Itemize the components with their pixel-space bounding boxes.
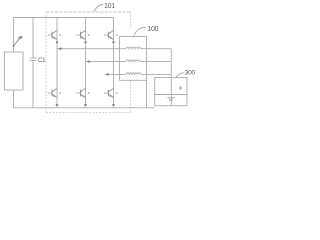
leg 1 upper collector wire	[56, 18, 58, 40]
svg-text:C1: C1	[38, 58, 46, 64]
phase wire W (row 3) with arrowhead	[105, 73, 126, 75]
leg 3 mid wire (phase node down to lower collector)	[113, 45, 115, 98]
top bus (positive rail)	[14, 17, 114, 19]
leg 2 mid wire (phase node down to lower collector)	[85, 45, 87, 98]
phase wire U (row 1) with arrowhead	[57, 48, 126, 50]
leg 1 upper emitter wire + arrow	[56, 40, 58, 42]
dashed box 101 (inverter boundary)	[46, 12, 131, 113]
leg 2 lower emitter wire + arrow to negative bus	[85, 98, 87, 105]
transistor Q3 (upper leg 2)	[76, 30, 90, 39]
neutral wire down to box 300	[170, 49, 172, 78]
leg 3 lower emitter wire + arrow to negative bus	[113, 98, 115, 105]
transistor Q2 (lower leg 1)	[48, 88, 62, 97]
divider in box 300	[155, 94, 187, 96]
transistor Q4 (lower leg 2)	[76, 88, 90, 97]
capacitor C1 plates	[30, 58, 37, 61]
wire row 1 to neutral bus	[141, 48, 171, 50]
wire row 2 to neutral bus	[141, 61, 171, 63]
leg 2 upper emitter wire + arrow	[85, 40, 87, 42]
leg 1 mid wire (phase node down to lower collector)	[56, 45, 58, 98]
svg-text:100: 100	[147, 26, 158, 33]
wire: vertical from source box top to top bus	[13, 18, 15, 53]
motor winding coil row 3	[126, 73, 141, 75]
small plus mark in box 300	[179, 86, 183, 90]
leg 3 upper emitter wire + arrow	[113, 40, 115, 42]
motor winding coil row 2	[126, 60, 141, 62]
battery source box (left)	[5, 52, 24, 90]
phase wire V (row 2) with arrowhead	[86, 61, 126, 63]
switch contact dot	[12, 45, 14, 47]
wire: motor box lower-right corner down to negative bus	[146, 80, 148, 108]
transistor Q6 (lower leg 3)	[104, 88, 118, 97]
wire: source box bottom to bottom bus	[13, 90, 15, 108]
leg 2 upper collector wire	[85, 18, 87, 40]
leader line to label 100	[134, 27, 146, 36]
leader line to label 300	[176, 73, 184, 78]
switch blade tip blob	[18, 35, 23, 39]
transistor Q1 (upper leg 1)	[48, 30, 62, 39]
wire through box 300	[170, 78, 172, 106]
leader line to label 101	[94, 4, 103, 11]
switch blade	[14, 38, 20, 45]
wire row 3 to neutral bus	[141, 73, 171, 75]
battery plates in box 300	[167, 98, 175, 100]
leg 1 lower emitter wire + arrow to negative bus	[56, 98, 58, 105]
motor winding coil row 1	[126, 47, 141, 49]
bottom bus (negative rail)	[14, 107, 155, 109]
svg-text:300: 300	[185, 70, 196, 77]
capacitor C1 top lead	[32, 18, 34, 58]
transistor Q5 (upper leg 3)	[104, 30, 118, 39]
box 300	[155, 78, 187, 106]
motor box 100	[120, 37, 147, 81]
leg 3 upper collector wire	[113, 18, 115, 40]
capacitor C1 bottom lead	[32, 61, 34, 108]
svg-text:101: 101	[104, 3, 115, 10]
